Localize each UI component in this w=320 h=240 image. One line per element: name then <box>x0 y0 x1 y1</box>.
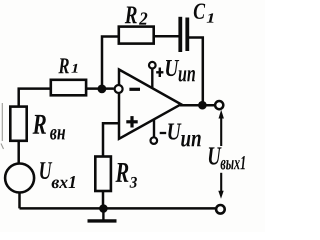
op-amp plus sign (non-inverting input marker) <box>126 120 137 123</box>
output terminal bottom <box>216 205 225 214</box>
annotation Uвых1 with arrows <box>209 110 245 199</box>
wire: C1 right plate to output node <box>188 38 203 106</box>
wire: non-inverting input to R3 top <box>103 123 120 157</box>
wire: bottom ground rail <box>20 207 216 210</box>
node: output junction dot <box>198 101 207 110</box>
output terminal top (Uвых1) <box>215 101 223 109</box>
scan artifact: faint line at left edge <box>1 103 4 149</box>
source Uвх1 <box>5 162 75 192</box>
op-amp minus sign (inverting input marker) <box>129 88 140 91</box>
wire: Rвн bottom to source top <box>17 141 20 163</box>
wire: R3 bottom to ground rail <box>102 190 105 208</box>
resistor R2 <box>119 7 154 44</box>
ground <box>88 209 117 221</box>
node A: inverting input junction dot <box>98 85 107 94</box>
power terminal -Uип <box>151 120 201 147</box>
resistor R3 <box>95 157 137 192</box>
wire: R2 right to C1 left plate <box>153 35 179 38</box>
node: ground rail junction dot <box>99 204 108 213</box>
op-amp U1 triangle <box>115 70 181 139</box>
wire: feedback left vertical from node A up to R2 <box>102 37 120 89</box>
resistor R1 <box>51 58 86 95</box>
resistor Rвн (source internal resistance) <box>10 107 65 141</box>
power terminal +Uип <box>149 60 195 88</box>
op-amp inverting input inversion circle <box>115 85 123 93</box>
wire: op-amp output to top terminal <box>180 104 215 107</box>
capacitor C1 <box>178 4 213 53</box>
wire: source bottom to rail <box>18 193 21 208</box>
wire: input node run from Rвн top to inverting input <box>19 89 114 107</box>
